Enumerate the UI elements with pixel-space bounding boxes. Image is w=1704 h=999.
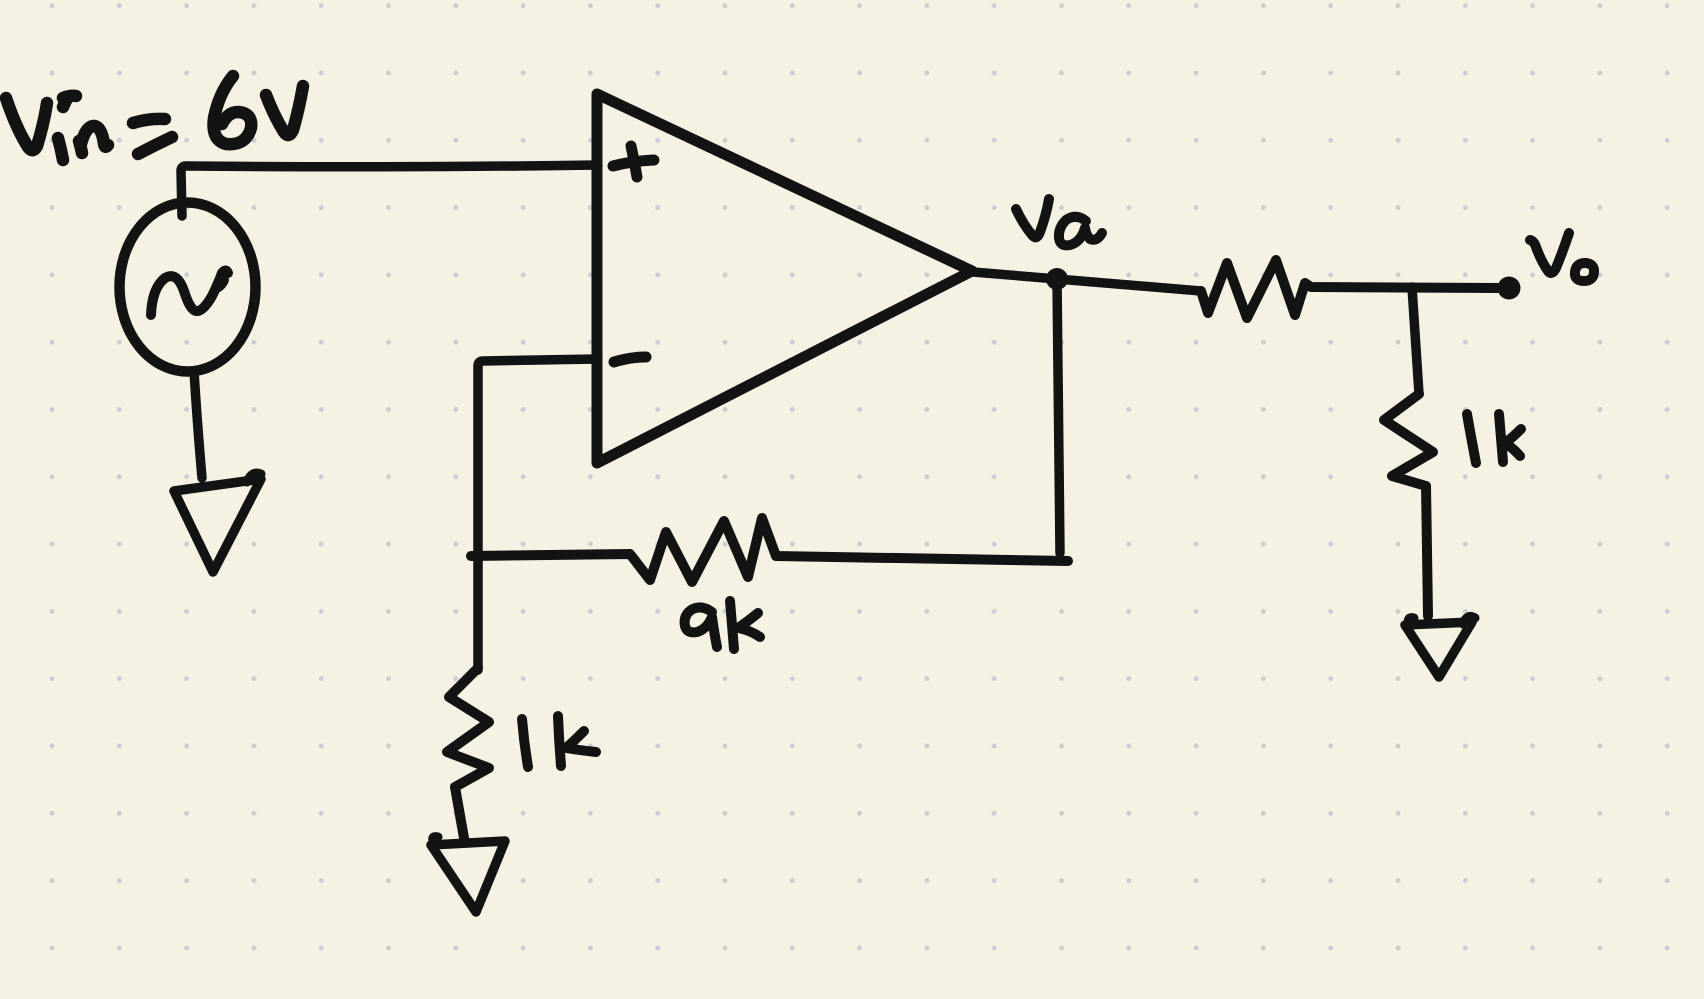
wire op-amp minus input (478, 359, 597, 556)
wire node Va down (1057, 280, 1060, 553)
ground GND2 (431, 841, 505, 912)
label Va (1016, 199, 1102, 245)
resistor R2 9k feedback (471, 518, 1068, 582)
wire Vin to op-amp + input (181, 165, 598, 216)
label 1k (left) (522, 716, 596, 767)
node Vo dot (1498, 277, 1521, 300)
minus input mark (614, 357, 646, 362)
op-amp U1 (597, 94, 972, 463)
source VS1 (AC) (120, 203, 256, 372)
wire Vo node down (1412, 287, 1419, 394)
label Vin = 6V (6, 76, 303, 160)
label Vo (1530, 233, 1594, 281)
wire inverting node down (473, 556, 483, 670)
ground GND3 (1405, 622, 1472, 677)
sine symbol (151, 271, 228, 316)
wire op-amp output to node Va (973, 272, 1201, 291)
label 1k (right) (1467, 414, 1521, 463)
wire source to ground (194, 371, 202, 478)
node Va junction dot (1046, 268, 1068, 290)
plus input mark (613, 146, 654, 177)
ground GND1 (174, 479, 261, 572)
resistor R1 1k (left, vertical) (447, 668, 489, 838)
resistor R3 (Va to Vo) (1201, 260, 1499, 318)
resistor R4 1k (right, vertical) (1384, 394, 1433, 616)
label 9k (685, 601, 760, 649)
